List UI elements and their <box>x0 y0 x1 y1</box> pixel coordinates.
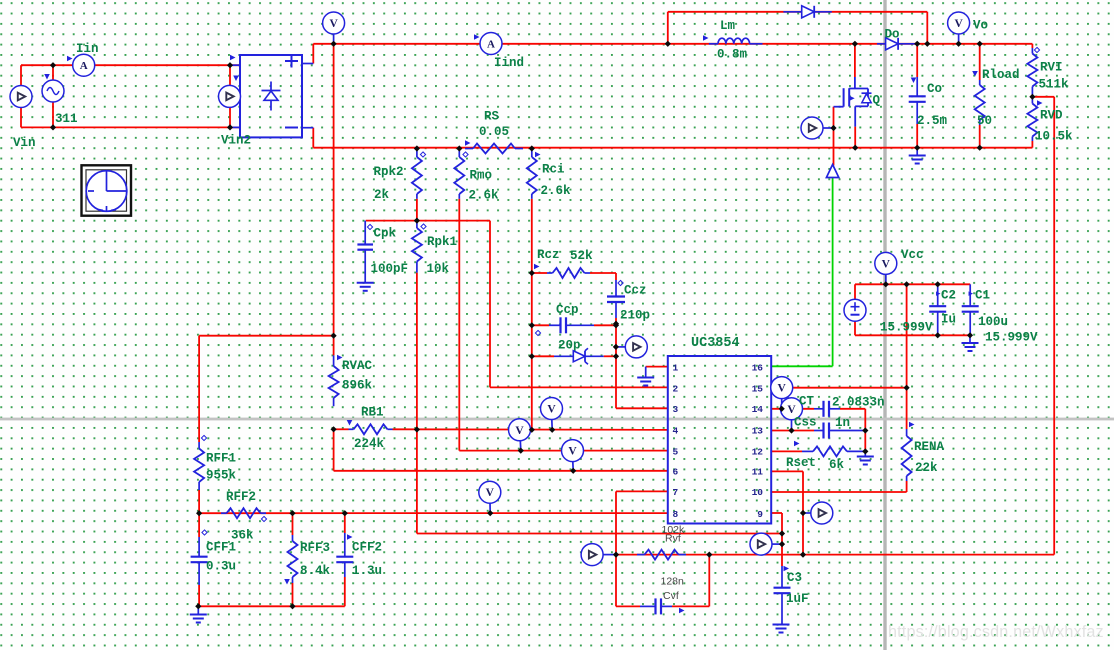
resistor Rci <box>527 149 537 199</box>
current probe gate <box>801 117 834 139</box>
label Ccz <box>618 280 647 297</box>
label 15.999V <box>880 321 933 335</box>
svg-text:A: A <box>80 60 88 72</box>
svg-text:V: V <box>882 258 891 270</box>
svg-text:955k: 955k <box>206 469 237 483</box>
zener diode <box>554 348 604 364</box>
label Rpk1 <box>421 224 457 249</box>
svg-text:Vo: Vo <box>973 19 988 33</box>
wire <box>616 407 668 409</box>
wire <box>458 199 460 451</box>
svg-text:6k: 6k <box>829 458 845 472</box>
wire <box>198 585 200 606</box>
label RB1 <box>347 406 384 426</box>
resistor RFF3 <box>288 535 298 583</box>
capacitor C1 <box>962 284 979 335</box>
label RFF3 <box>284 541 330 585</box>
label Rload <box>972 68 1019 82</box>
label Cpk <box>367 224 396 240</box>
svg-text:https://blog.csdn.net/Wxhxfaz: https://blog.csdn.net/Wxhxfaz <box>888 623 1104 641</box>
wire <box>532 355 554 357</box>
wire <box>771 408 814 410</box>
wire <box>199 335 334 337</box>
voltage probe pin15 <box>771 377 793 409</box>
svg-text:CFF2: CFF2 <box>352 541 382 555</box>
svg-text:14: 14 <box>752 404 764 415</box>
ammeter Iind <box>480 33 502 55</box>
resistor RB1 <box>349 424 393 434</box>
clock icon <box>82 165 132 215</box>
resistor RVAC <box>329 336 339 407</box>
svg-text:V: V <box>954 18 963 30</box>
resistor RVD <box>1027 97 1037 141</box>
label 6k <box>829 458 845 472</box>
label 1.3u <box>352 564 382 578</box>
wire <box>198 336 200 442</box>
wire <box>344 577 346 606</box>
label Lm <box>720 19 736 33</box>
ground <box>773 625 790 633</box>
dc source Vdc <box>844 299 866 321</box>
svg-text:▸: ▸ <box>936 289 941 299</box>
svg-text:V: V <box>486 487 495 499</box>
label 0.05 <box>465 125 509 146</box>
wire <box>20 65 22 127</box>
wire <box>292 583 294 606</box>
wire <box>771 387 906 389</box>
wire <box>906 284 908 429</box>
svg-text:50: 50 <box>977 114 992 128</box>
wire <box>1053 97 1055 555</box>
label 2.5m <box>917 114 948 128</box>
wire <box>198 490 200 513</box>
svg-text:Rci: Rci <box>542 163 565 177</box>
label Rset <box>786 441 816 470</box>
svg-text:A: A <box>487 39 495 51</box>
label 20p <box>535 330 580 352</box>
label 52k <box>570 249 593 263</box>
wire <box>864 409 866 431</box>
wire <box>802 471 804 554</box>
svg-text:Co: Co <box>927 82 942 96</box>
label Iind <box>494 56 524 70</box>
wire <box>916 124 918 148</box>
voltage probe Vin <box>10 86 32 108</box>
svg-text:RFF1: RFF1 <box>206 452 236 466</box>
svg-text:2.6k: 2.6k <box>541 184 572 198</box>
svg-text:511k: 511k <box>1039 78 1070 92</box>
voltage probe pin6 <box>562 440 584 471</box>
svg-text:2.5m: 2.5m <box>917 114 948 128</box>
marker <box>703 35 709 41</box>
wire <box>21 126 240 128</box>
svg-text:Iin: Iin <box>76 42 99 56</box>
voltage probe Vo <box>948 12 970 44</box>
label 10.5k <box>1035 130 1073 144</box>
svg-text:224k: 224k <box>354 437 385 451</box>
wire <box>489 221 491 388</box>
wire <box>771 450 802 452</box>
wire <box>604 355 616 357</box>
page boundary vertical gray line <box>883 0 886 650</box>
svg-text:Rpk2: Rpk2 <box>374 165 404 179</box>
wire <box>366 220 490 222</box>
wire <box>590 272 616 274</box>
label Q <box>873 94 881 108</box>
label Co <box>911 78 942 97</box>
marker <box>230 55 236 61</box>
label 955k <box>206 469 237 483</box>
label 0.3u <box>206 560 236 574</box>
label RVI <box>1034 47 1062 74</box>
wire <box>333 44 335 336</box>
wire <box>334 428 349 430</box>
wire <box>416 273 418 534</box>
svg-text:15: 15 <box>752 383 764 394</box>
wire <box>490 386 668 388</box>
label RFF2 <box>226 490 267 522</box>
wire <box>840 408 865 410</box>
label Css <box>794 416 817 430</box>
svg-text:1: 1 <box>673 362 679 373</box>
wire <box>855 334 970 336</box>
label 22k <box>915 461 938 475</box>
label Cvf <box>663 590 685 613</box>
wire <box>667 12 669 44</box>
svg-text:Vin: Vin <box>13 136 36 150</box>
wire <box>198 513 200 537</box>
wire <box>532 272 547 274</box>
voltage probe Vcc <box>875 252 897 284</box>
svg-text:Ccz: Ccz <box>624 284 647 298</box>
svg-text:1n: 1n <box>835 416 850 430</box>
label 100pF <box>371 262 409 276</box>
bridge rectifier Vin2 <box>230 55 313 138</box>
svg-text:7: 7 <box>673 487 679 498</box>
label Iin <box>76 42 99 56</box>
svg-text:10.5k: 10.5k <box>1035 130 1073 144</box>
wire <box>532 324 549 326</box>
svg-text:V: V <box>778 383 787 395</box>
wire <box>979 44 981 80</box>
label Rmo <box>463 152 492 183</box>
svg-text:Iu: Iu <box>941 313 956 327</box>
label RS <box>484 110 500 124</box>
label 0.8m <box>717 48 748 62</box>
svg-text:RVI: RVI <box>1040 61 1063 75</box>
svg-text:V: V <box>329 18 338 30</box>
label C2 <box>936 289 956 303</box>
label Ccp <box>556 303 579 317</box>
svg-text:Lm: Lm <box>720 19 736 33</box>
svg-text:4: 4 <box>673 426 679 437</box>
label Vo <box>973 19 988 33</box>
svg-text:V: V <box>515 425 524 437</box>
svg-text:RVD: RVD <box>1040 109 1063 123</box>
marker <box>67 56 73 62</box>
svg-text:311: 311 <box>55 112 78 126</box>
ground <box>190 606 207 622</box>
wire <box>854 321 856 336</box>
wire <box>833 107 835 166</box>
wire <box>312 44 314 64</box>
resistor RFF2 <box>221 508 266 518</box>
svg-text:C3: C3 <box>787 571 802 585</box>
svg-text:0.3u: 0.3u <box>206 560 236 574</box>
marker <box>474 34 480 40</box>
label 2.0833n <box>832 396 885 410</box>
wire <box>668 11 928 13</box>
inductor Lm <box>709 38 763 44</box>
label RVAC <box>337 355 373 373</box>
svg-text:1.3u: 1.3u <box>352 564 382 578</box>
current probe fb <box>581 544 616 566</box>
wire <box>313 147 1032 149</box>
label 311 <box>55 112 78 126</box>
label 1uF <box>786 592 809 606</box>
current probe comp <box>616 336 647 358</box>
label Vin <box>13 136 36 150</box>
svg-text:2.0833n: 2.0833n <box>832 396 885 410</box>
svg-text:Css: Css <box>794 416 817 430</box>
resistor RENA <box>902 429 912 481</box>
svg-text:22k: 22k <box>915 461 938 475</box>
svg-text:16: 16 <box>752 362 764 373</box>
mosfet Q <box>834 77 872 127</box>
green wire <box>771 178 832 366</box>
label Rci <box>535 152 565 177</box>
svg-text:RB1: RB1 <box>361 406 384 420</box>
wire <box>616 554 1054 556</box>
wire <box>854 284 856 300</box>
label 2.6k <box>541 184 572 198</box>
wire <box>594 324 616 326</box>
resistor Rpk2 <box>412 149 422 199</box>
svg-text:100pF: 100pF <box>371 262 409 276</box>
svg-text:3: 3 <box>673 404 679 415</box>
label 896k <box>342 379 373 393</box>
wire <box>672 605 709 607</box>
capacitor CT <box>814 401 840 417</box>
label RFF1 <box>201 435 236 465</box>
wire <box>393 428 668 431</box>
svg-text:C2: C2 <box>941 289 956 303</box>
svg-text:C1: C1 <box>975 289 990 303</box>
svg-text:1uF: 1uF <box>786 592 809 606</box>
svg-text:8: 8 <box>673 509 679 520</box>
label Do <box>885 28 900 42</box>
label 15.999V <box>985 331 1038 345</box>
resistor Rpk1 <box>412 221 422 273</box>
label CT <box>799 395 815 409</box>
svg-text:Do: Do <box>885 28 900 42</box>
page boundary horizontal gray line <box>0 418 1114 421</box>
svg-text:Rset: Rset <box>786 456 816 470</box>
wire <box>926 12 928 44</box>
voltage probe Vrect <box>323 12 345 44</box>
wire <box>854 44 856 77</box>
label RVD <box>1037 100 1063 122</box>
svg-text:CFF1: CFF1 <box>206 541 236 555</box>
svg-text:CT: CT <box>799 395 815 409</box>
wire <box>616 490 668 492</box>
svg-text:2: 2 <box>673 383 679 394</box>
svg-text:0.05: 0.05 <box>479 125 509 139</box>
svg-text:6: 6 <box>673 467 679 478</box>
label C1 <box>969 289 991 303</box>
svg-text:UC3854: UC3854 <box>691 336 740 351</box>
diode Do <box>877 38 917 50</box>
label 511k <box>1039 78 1070 92</box>
resistor Rload <box>975 80 985 125</box>
svg-text:Vcc: Vcc <box>901 248 924 262</box>
svg-text:RS: RS <box>484 110 500 124</box>
wire <box>781 513 783 566</box>
svg-text:V: V <box>547 404 556 416</box>
svg-text:RVAC: RVAC <box>342 359 373 373</box>
resistor RS <box>465 144 523 154</box>
resistor Rcz <box>547 268 590 278</box>
wire <box>292 513 294 535</box>
wire <box>771 470 803 472</box>
svg-text:15.999V: 15.999V <box>880 321 933 335</box>
resistor RVI <box>1027 48 1037 97</box>
svg-text:V: V <box>787 404 796 416</box>
resistor Rset <box>802 446 865 456</box>
wire <box>855 283 970 285</box>
capacitor Ccp <box>549 317 594 333</box>
label 2.6k <box>469 189 500 203</box>
label Rcz <box>534 248 560 269</box>
svg-text:▸: ▸ <box>969 289 974 299</box>
resistor Rmo <box>454 149 464 199</box>
wire <box>708 555 710 607</box>
label 50 <box>977 114 992 128</box>
capacitor CFF2 <box>336 533 353 577</box>
wire <box>416 199 418 221</box>
svg-text:52k: 52k <box>570 249 593 263</box>
svg-text:0.8m: 0.8m <box>717 48 748 62</box>
wire <box>199 512 668 514</box>
svg-text:2k: 2k <box>374 188 390 202</box>
svg-text:13: 13 <box>752 426 764 437</box>
wire <box>531 199 533 430</box>
marker <box>44 74 50 80</box>
svg-text:Ccp: Ccp <box>556 303 579 317</box>
svg-text:V: V <box>568 446 577 458</box>
wire <box>906 481 908 492</box>
wire <box>21 64 240 66</box>
svg-text:8.4k: 8.4k <box>300 564 331 578</box>
resistor RFF1 <box>194 442 204 490</box>
svg-text:RFF2: RFF2 <box>226 490 256 504</box>
label 224k <box>354 437 385 451</box>
svg-text:20p: 20p <box>558 339 581 353</box>
capacitor C3 <box>774 566 791 624</box>
op-amp U1 UC3854 <box>668 356 771 524</box>
label Vin2 <box>221 134 251 148</box>
wire <box>615 324 617 409</box>
svg-text:RENA: RENA <box>914 440 945 454</box>
label 2k <box>374 188 390 202</box>
diode bypass <box>783 6 831 18</box>
svg-text:Rpk1: Rpk1 <box>427 235 457 249</box>
label 36k <box>231 529 254 543</box>
capacitor Cvf <box>640 598 672 614</box>
voltage probe pin4b <box>509 419 531 451</box>
wire <box>229 65 231 127</box>
wire <box>854 127 856 148</box>
svg-text:Iind: Iind <box>494 56 524 70</box>
label 1u <box>941 313 956 327</box>
wire <box>646 366 668 368</box>
label RENA <box>909 422 945 454</box>
wire <box>616 605 640 607</box>
probe Vin2 <box>219 85 241 107</box>
wire <box>334 470 668 472</box>
svg-text:Rload: Rload <box>982 68 1020 82</box>
wire <box>615 273 617 280</box>
label CFF2 <box>347 534 382 554</box>
svg-text:5: 5 <box>673 446 679 457</box>
svg-text:10: 10 <box>752 487 764 498</box>
ground <box>357 283 374 291</box>
svg-text:210p: 210p <box>620 309 650 323</box>
capacitor Css <box>814 423 865 439</box>
label 8.4k <box>300 564 331 578</box>
wire <box>333 429 335 471</box>
current probe pin9 <box>803 502 833 524</box>
wire <box>313 43 1032 45</box>
capacitor C2 <box>929 284 946 335</box>
ground <box>637 367 654 386</box>
label CFF1 <box>202 530 236 555</box>
svg-text:2.6k: 2.6k <box>469 189 500 203</box>
wire <box>771 512 782 514</box>
wire <box>771 430 814 432</box>
voltage probe pin4 <box>541 398 563 430</box>
wire <box>459 450 668 452</box>
label 128n <box>661 576 685 588</box>
ammeter Iin <box>73 54 95 76</box>
svg-text:Q: Q <box>873 94 881 108</box>
svg-text:896k: 896k <box>342 379 373 393</box>
wire <box>198 605 344 607</box>
wire <box>916 44 918 77</box>
wire <box>1031 141 1033 148</box>
wire <box>864 431 866 452</box>
svg-text:Rmo: Rmo <box>470 169 493 183</box>
label Rpk2 <box>374 152 426 179</box>
wire <box>615 318 617 324</box>
label 100u <box>978 315 1008 329</box>
svg-text:Vin2: Vin2 <box>221 134 251 148</box>
resistor Rvf <box>637 550 686 560</box>
wire <box>615 555 617 607</box>
wire <box>771 491 906 493</box>
capacitor CFF1 <box>191 537 208 585</box>
svg-text:15.999V: 15.999V <box>985 331 1038 345</box>
sine source 311 <box>42 80 64 102</box>
ground <box>962 335 979 351</box>
svg-text:100u: 100u <box>978 315 1008 329</box>
voltage probe pin8 <box>479 481 501 513</box>
marker <box>233 76 239 82</box>
label C3 <box>784 566 803 585</box>
svg-text:12: 12 <box>752 446 764 457</box>
gate arrow symbol <box>826 165 838 178</box>
label 210p <box>620 309 650 323</box>
